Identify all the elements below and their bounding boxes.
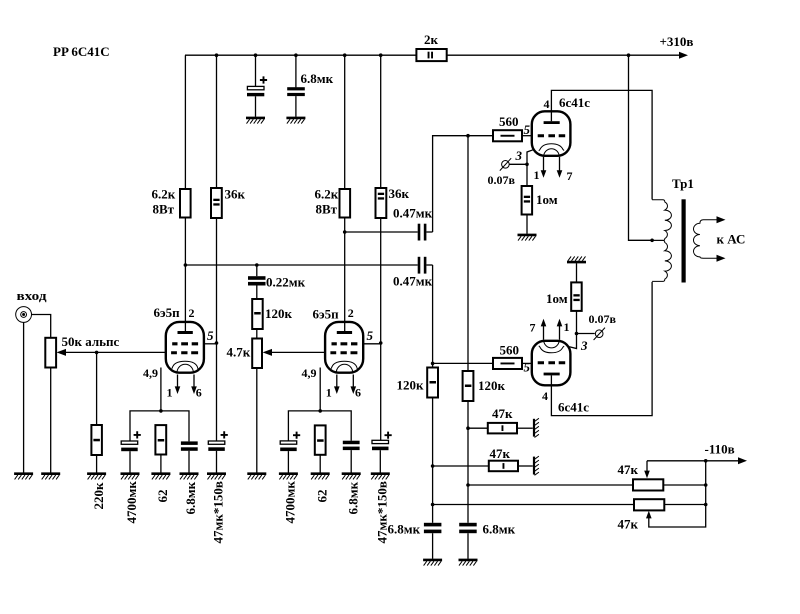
heater arrow pin 6 V1: [191, 375, 197, 395]
resistor 220к: [91, 425, 102, 455]
wire 36к#1 bottom to screen node V1: [216, 218, 218, 343]
ground below 62 #1: [151, 474, 170, 480]
arrow +310в supply: [679, 52, 688, 59]
ground below 47мк*150в #2: [371, 474, 390, 480]
svg-text:1: 1: [534, 168, 540, 182]
resistor 2к (series B+ bus): [416, 49, 446, 61]
node bus to transformer tap: [627, 53, 631, 57]
heater arrow pin 7 V4: [541, 319, 547, 340]
tube V3 heater arc: [544, 149, 560, 156]
arrow secondary bottom к АС: [717, 255, 726, 262]
wire 560 #2 to grid pin 5 lower: [522, 362, 532, 364]
tube V1 heater arc: [177, 364, 193, 372]
capacitor 0.22мк: [248, 265, 266, 299]
wire coupling #1 up to grid wire upper 6с41с: [433, 136, 493, 232]
wire bus drop to 6.8мк cap: [295, 55, 297, 87]
wire bus drop to 36к #1: [216, 55, 218, 188]
capacitor 47мк*150в #1: [208, 431, 228, 472]
tube V4 cathode arc: [539, 346, 564, 353]
svg-text:6с41с: 6с41с: [558, 400, 589, 415]
svg-text:47к: 47к: [618, 517, 639, 532]
svg-text:560: 560: [500, 343, 520, 358]
svg-text:6.8мк: 6.8мк: [183, 481, 198, 514]
svg-text:4,9: 4,9: [302, 366, 317, 380]
wiper arrow 47к pot #2: [646, 511, 652, 519]
wire bus corner down to 6.2к #1: [184, 55, 186, 189]
wire screen node down to 47мк*150в #1: [216, 343, 218, 441]
wire anode V3 to transformer top: [551, 90, 652, 199]
wire bus drop to electrolytic cap: [255, 55, 257, 86]
resistor 1ом #1: [522, 164, 533, 234]
transformer core: [682, 199, 686, 282]
wire 120к to 4.7к: [256, 329, 258, 339]
svg-text:7: 7: [530, 321, 536, 335]
tube V2 6э5п envelope: [325, 322, 363, 373]
svg-text:6.8мк: 6.8мк: [388, 522, 421, 537]
wire grid node to 560 #2: [433, 362, 493, 364]
svg-text:+310в: +310в: [660, 34, 694, 49]
wire anode V2 to coupling cap 0.47мк #1: [345, 231, 418, 233]
svg-text:0.07в: 0.07в: [589, 312, 617, 326]
wire bus drop to 36к #2: [380, 55, 382, 188]
node screen V1: [215, 341, 219, 345]
wire jack shield down to ground: [23, 322, 25, 472]
tube V2 grid row 1: [332, 342, 358, 345]
wire grid node down to 120к left: [432, 363, 434, 367]
cathode pin 3 lead V3: [527, 150, 533, 165]
wire upper bias node down: [467, 428, 469, 485]
wire jack to 50к pot: [32, 315, 51, 338]
wire 6.2к#2 bottom to anode V2: [344, 218, 346, 332]
tube V4 6с41с lower envelope: [532, 341, 571, 386]
wire 36к#2 bottom to screen node V2: [380, 218, 382, 343]
capacitor 0.47мк #2 (lower coupling): [418, 257, 433, 274]
node bias feed upper / 47к #1: [466, 426, 470, 430]
transformer secondary winding: [694, 220, 719, 258]
ground below 6.8мк PSU cap: [286, 118, 305, 124]
resistor 560 #1 (upper grid stopper): [493, 130, 522, 141]
test point 0.07в upper: [500, 158, 527, 170]
node bias feed lower / 47к #2: [431, 464, 435, 468]
ground below 6.8мк #1: [180, 474, 199, 480]
node grid lower 6с41с / 120к feed: [431, 362, 435, 366]
capacitor 0.47мк #1 (upper coupling): [418, 224, 433, 241]
ground below 6.8мк right bias: [459, 560, 478, 566]
resistor 36к #1: [211, 188, 222, 218]
node bus-6.2к#2: [343, 53, 347, 57]
tube V2 heater arc: [336, 364, 352, 372]
wire node down to 220к: [96, 352, 98, 425]
tube V1 cathode arc: [172, 361, 198, 370]
svg-text:6.8мк: 6.8мк: [345, 481, 360, 514]
node -110в to pots: [704, 459, 708, 463]
wire wiper to grid V1: [97, 351, 166, 353]
svg-text:47к: 47к: [492, 406, 513, 421]
svg-text:4: 4: [542, 389, 548, 403]
wire 120к right down: [467, 401, 469, 428]
node anode V1 / 0.22мк wire: [184, 263, 188, 267]
svg-text:6э5п: 6э5п: [313, 307, 340, 322]
wiper arrow 47к pot #1: [644, 461, 650, 478]
node 0.22мк tap: [255, 263, 259, 267]
resistor 36к #2: [376, 188, 387, 218]
node transformer center tap: [650, 239, 654, 243]
ground below 50к pot: [41, 474, 60, 480]
tube V2 cathode arc: [331, 361, 357, 370]
tube V4 anode plate: [544, 373, 560, 376]
node grid upper 6с41с / 120к feed: [466, 134, 470, 138]
wire 220к to ground: [96, 455, 98, 473]
wire grid node down to 120к right: [467, 136, 469, 371]
wire node to 6.8мк left: [432, 505, 434, 523]
svg-text:6: 6: [355, 386, 361, 400]
heater arrow pin 1 V1: [175, 375, 181, 395]
wire lower bias node down: [432, 466, 434, 505]
tube V1 grid row 1: [172, 342, 198, 345]
svg-text:1ом: 1ом: [546, 291, 568, 306]
ground below jack: [14, 474, 33, 480]
capacitor 47мк*150в #2: [372, 432, 392, 473]
wire B+ bus right segment: [447, 54, 682, 56]
resistor 120к right (upper grid leak): [463, 371, 474, 401]
heater arrow pin 1 V2: [334, 375, 340, 395]
wire -110в feed: [647, 460, 741, 462]
svg-text:6.2к: 6.2к: [315, 187, 339, 202]
wire 560 #1 to grid pin 5: [522, 135, 532, 137]
tube V3 6с41с upper envelope: [532, 111, 571, 156]
tube V2 grid row 2: [330, 351, 357, 354]
svg-text:5: 5: [524, 122, 531, 137]
svg-text:2: 2: [348, 306, 354, 320]
svg-text:8Вт: 8Вт: [316, 202, 338, 217]
node wire to 47к pot #2: [431, 503, 435, 507]
node cathode V1: [159, 409, 163, 413]
svg-text:220к: 220к: [91, 482, 106, 510]
svg-text:0.22мк: 0.22мк: [266, 275, 306, 290]
svg-text:2к: 2к: [424, 32, 439, 47]
svg-text:8Вт: 8Вт: [153, 202, 175, 217]
transformer Тр1 primary winding: [652, 200, 671, 241]
svg-text:560: 560: [499, 114, 519, 129]
svg-text:47мк*150в: 47мк*150в: [211, 481, 226, 543]
svg-text:1: 1: [167, 386, 173, 400]
wire 120к left down: [432, 398, 434, 467]
ground below 220к: [87, 474, 106, 480]
wire 50к bottom to ground: [50, 368, 52, 473]
svg-text:36к: 36к: [389, 186, 410, 201]
wire bus down to transformer center tap: [629, 55, 653, 240]
node anode V2 / coupling wire: [343, 230, 347, 234]
svg-text:PP 6C41C: PP 6C41C: [53, 44, 110, 59]
cathode lead V1: [160, 368, 162, 411]
heater arrow pin 7 V3: [557, 157, 563, 178]
ground below 4700мк #1: [121, 474, 140, 480]
svg-text:5: 5: [207, 328, 214, 343]
capacitor 6.8мк #2: [343, 441, 360, 473]
node screen V2: [379, 341, 383, 345]
svg-text:6.2к: 6.2к: [152, 187, 176, 202]
wire cathode bus V2: [288, 411, 351, 441]
svg-text:0.47мк: 0.47мк: [393, 206, 433, 221]
wire bus drop to 6.2к #2: [344, 55, 346, 189]
wire pot #2 left lead to lower bias node: [433, 504, 634, 506]
node wire to 47к pot #1: [466, 483, 470, 487]
tube V3 cathode arc: [539, 144, 564, 151]
node bus-36к#2: [379, 53, 383, 57]
node cathode V4: [575, 332, 579, 336]
tube V1 grid row 2: [171, 351, 198, 354]
wire B+ bus left segment: [185, 54, 416, 56]
tube V4 grid row: [538, 361, 566, 364]
input jack: [16, 307, 32, 323]
wire -110в down pot chain: [649, 461, 706, 527]
ground above 1ом #2 (inverted): [567, 256, 586, 262]
wire anode V4 to transformer bottom: [551, 282, 652, 416]
resistor 6.2к 8Вт #1: [180, 189, 191, 218]
wire 6.2к#1 bottom to anode node: [184, 218, 186, 332]
wire screen node V2 down to 47мк*150в #2: [380, 343, 382, 440]
chassis ground 47к #1: [534, 418, 539, 437]
ground below 4.7к: [247, 474, 266, 480]
svg-text:3: 3: [515, 148, 523, 163]
svg-text:6.8мк: 6.8мк: [483, 522, 516, 537]
wire pot #1 left lead to upper bias node: [468, 484, 633, 486]
node bus-36к#1: [215, 53, 219, 57]
wiper arrow 50к pot: [57, 349, 98, 356]
svg-text:6э5п: 6э5п: [154, 305, 181, 320]
tube V1 anode plate: [178, 331, 193, 334]
svg-text:1: 1: [564, 320, 570, 334]
node cathode V3: [525, 163, 529, 167]
svg-text:62: 62: [314, 490, 329, 503]
capacitor electrolytic PSU (+): [247, 76, 267, 116]
capacitor 6.8мк #1: [181, 441, 198, 472]
node bus-cap1: [254, 53, 258, 57]
wire pot #1 right lead: [663, 484, 705, 486]
svg-text:вход: вход: [17, 288, 47, 303]
ground below 4700мк #2: [279, 474, 298, 480]
svg-text:120к: 120к: [397, 378, 425, 393]
potentiometer 4.7к: [252, 339, 262, 369]
svg-text:0.07в: 0.07в: [488, 173, 516, 187]
capacitor 6.8мк left (bias filter): [424, 523, 442, 559]
svg-text:1: 1: [326, 386, 332, 400]
node pot #2 right: [704, 503, 708, 507]
ground below 6.8мк #2: [342, 474, 361, 480]
heater arrow pin 1 V4: [557, 319, 563, 340]
pin 5 wire V2 to screen node: [363, 343, 381, 345]
node pot #1 right: [704, 483, 708, 487]
svg-text:7: 7: [567, 169, 573, 183]
wire pot #2 right lead: [664, 504, 705, 506]
resistor 120к (divider): [252, 299, 263, 329]
tube V4 heater arc: [544, 341, 560, 348]
capacitor 4700мк #2: [280, 432, 300, 473]
ground below 1ом #1: [518, 235, 537, 241]
heater arrow pin 1 V3: [541, 157, 547, 178]
svg-text:5: 5: [367, 328, 374, 343]
potentiometer 47к #2 (bias lower): [634, 499, 664, 510]
arrow secondary top к АС: [717, 216, 726, 223]
wire coupling #2 down to grid wire lower 6с41с: [432, 265, 434, 363]
resistor 47к #2 (to chassis): [433, 461, 533, 472]
svg-text:4700мк: 4700мк: [124, 481, 139, 524]
svg-text:6: 6: [196, 386, 202, 400]
potentiometer 50к альпс: [45, 338, 56, 368]
resistor 47к #1 (to chassis): [468, 423, 533, 434]
capacitor 6.8мк PSU: [287, 87, 305, 117]
capacitor 6.8мк right (bias filter): [459, 523, 477, 559]
svg-text:4,9: 4,9: [143, 366, 158, 380]
cathode lead V2: [319, 368, 321, 411]
ground below electrolytic PSU cap: [246, 118, 265, 124]
svg-text:3: 3: [580, 338, 588, 353]
wire cathode bus V1: [130, 411, 189, 442]
svg-text:-110в: -110в: [705, 442, 735, 457]
resistor 1ом #2: [571, 263, 582, 333]
svg-text:120к: 120к: [478, 378, 506, 393]
tube V1 6э5п envelope: [166, 322, 204, 373]
wire 4.7к bottom to ground: [256, 368, 258, 473]
node 220к tap: [95, 351, 99, 355]
resistor 560 #2 (lower grid stopper): [493, 358, 522, 369]
svg-text:47к: 47к: [490, 446, 511, 461]
svg-text:к АС: к АС: [717, 232, 746, 247]
svg-text:50к альпс: 50к альпс: [62, 334, 120, 349]
potentiometer 47к #1 (bias upper): [633, 479, 663, 490]
heater arrow pin 6 V2: [351, 375, 357, 395]
tube V3 anode plate: [544, 121, 560, 124]
resistor 62 #1: [155, 425, 166, 473]
chassis ground 47к #2: [534, 456, 539, 475]
svg-text:36к: 36к: [225, 187, 246, 202]
resistor 62 #2: [315, 425, 326, 472]
svg-text:0.47мк: 0.47мк: [393, 274, 433, 289]
svg-text:120к: 120к: [265, 306, 293, 321]
capacitor 4700мк #1: [121, 431, 141, 472]
wire anode V1 to coupling cap 0.47мк #2: [185, 264, 417, 266]
svg-text:62: 62: [155, 490, 170, 503]
svg-text:4700мк: 4700мк: [283, 481, 298, 524]
svg-text:Тр1: Тр1: [672, 176, 694, 191]
svg-text:47к: 47к: [618, 462, 639, 477]
svg-text:1ом: 1ом: [536, 192, 558, 207]
svg-text:2: 2: [189, 306, 195, 320]
svg-text:5: 5: [524, 360, 531, 375]
node cathode V2: [318, 409, 322, 413]
resistor 120к left (lower grid leak): [427, 368, 438, 398]
wire node to 6.8мк right: [467, 485, 469, 523]
ground below 62 #2: [311, 474, 330, 480]
test point 0.07в lower: [577, 328, 606, 340]
wiper arrow 4.7к to grid V2: [263, 349, 326, 356]
node bus-cap2: [294, 53, 298, 57]
svg-text:4: 4: [544, 97, 550, 111]
tube V2 anode plate: [337, 331, 352, 334]
svg-text:6с41с: 6с41с: [559, 95, 590, 110]
arrow -110в: [738, 457, 747, 464]
resistor 6.2к 8Вт #2: [340, 189, 351, 218]
svg-text:6.8мк: 6.8мк: [301, 71, 334, 86]
cathode pin 3 lead V4: [569, 334, 576, 349]
ground below 6.8мк left bias: [423, 560, 442, 566]
ground below 47мк*150в #1: [207, 474, 226, 480]
svg-text:4.7к: 4.7к: [227, 345, 251, 360]
tube V3 grid row: [538, 134, 566, 137]
pin 5 wire V1 to screen node: [204, 343, 217, 345]
